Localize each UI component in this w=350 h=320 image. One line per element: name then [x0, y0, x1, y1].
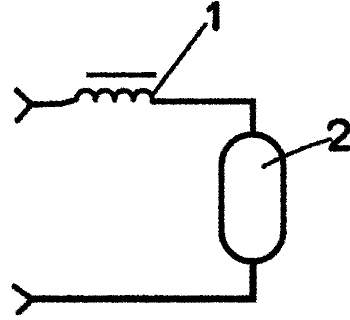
- wire from T1 to inductor: [31, 100, 74, 105]
- terminal T1 (top input fork): [16, 90, 31, 120]
- label 1 (inductor reference): [208, 4, 216, 27]
- leader line to label 1: [151, 24, 205, 96]
- label 2 (lamp reference): [329, 121, 348, 148]
- inductor 1 (ballast choke winding): [76, 90, 152, 100]
- terminal T2 (bottom input fork): [14, 286, 32, 312]
- leader line to label 2: [263, 139, 330, 166]
- lamp 2 (discharge tube envelope): [221, 134, 283, 261]
- wire from lamp to T2 (bottom): [32, 261, 253, 299]
- inductor core bar: [86, 72, 156, 77]
- wire from inductor to lamp (top): [152, 101, 253, 134]
